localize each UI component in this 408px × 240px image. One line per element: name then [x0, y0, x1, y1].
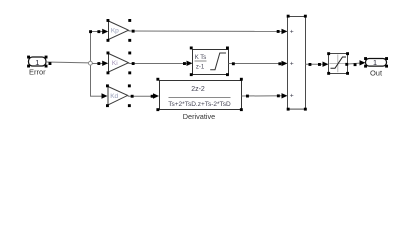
- wire junction to Kp: [89, 29, 108, 34]
- wire saturation to Out: [345, 60, 365, 66]
- wire Kd to derivative: [128, 93, 159, 98]
- svg-text:+: +: [290, 61, 294, 68]
- svg-text:Kd: Kd: [110, 93, 118, 100]
- svg-text:z-1: z-1: [196, 65, 205, 71]
- discrete-time integrator block: [190, 47, 229, 77]
- gain Ki: [107, 52, 132, 75]
- svg-text:2z-2: 2z-2: [191, 86, 205, 93]
- wire sum to saturation: [305, 62, 328, 67]
- inport Error: [27, 56, 47, 68]
- wire derivative to sum: [242, 93, 288, 98]
- wire junction to Kd: [90, 93, 108, 98]
- discrete derivative block: [156, 78, 242, 111]
- svg-text:Ts+2*TsD.z+Ts-2*TsD: Ts+2*TsD.z+Ts-2*TsD: [168, 101, 231, 108]
- svg-text:1: 1: [373, 58, 377, 67]
- wire branch vertical: [90, 32, 92, 97]
- outport Out: [364, 57, 388, 68]
- gain Kp: [107, 19, 132, 42]
- wire integrator to sum: [229, 61, 288, 66]
- wire Error to junction: [46, 62, 89, 65]
- svg-text:Kp: Kp: [111, 28, 119, 35]
- node branch junction: [89, 61, 93, 65]
- svg-text:Out: Out: [370, 69, 383, 78]
- svg-text:Error: Error: [29, 68, 46, 77]
- wire Ki to integrator: [129, 61, 193, 66]
- gain Kd: [106, 84, 131, 107]
- svg-text:+: +: [290, 29, 294, 36]
- svg-text:+: +: [290, 93, 294, 100]
- saturation block: [327, 52, 349, 75]
- svg-text:1: 1: [35, 58, 39, 67]
- svg-text:Derivative: Derivative: [183, 112, 215, 121]
- svg-text:K Ts: K Ts: [195, 55, 207, 61]
- wire junction to Ki: [92, 61, 108, 66]
- svg-text:Ki: Ki: [112, 60, 118, 67]
- wire Kp to sum: [129, 29, 288, 34]
- sum block: [287, 15, 307, 111]
